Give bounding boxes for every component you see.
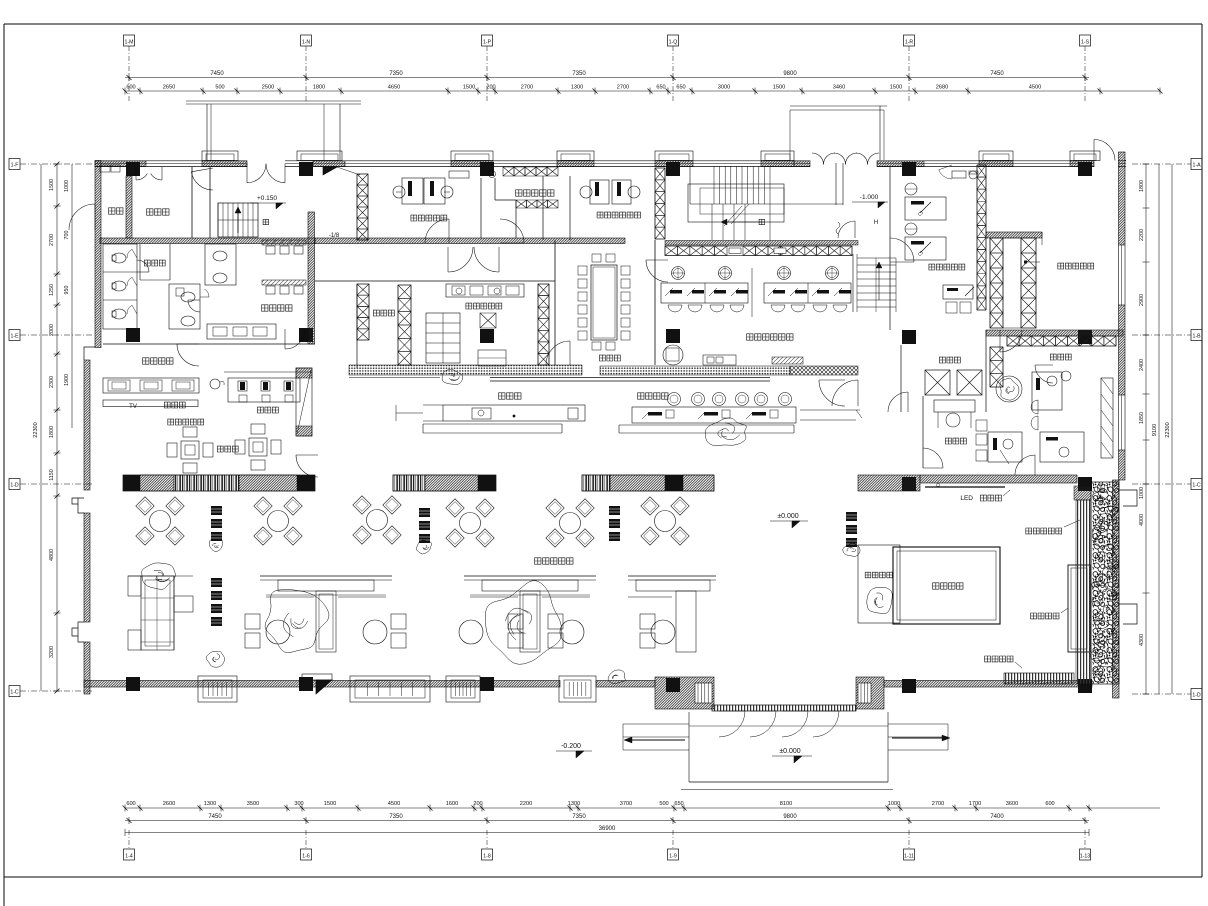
room label 资料室: [1050, 354, 1071, 360]
svg-text:2650: 2650: [163, 85, 175, 91]
wall shebei right: [191, 167, 193, 238]
book stack shelves row1: [211, 506, 222, 515]
svg-text:7450: 7450: [208, 814, 222, 820]
svg-text:1-C: 1-C: [1192, 483, 1201, 489]
room label 市场部办公室: [597, 212, 640, 218]
conference chairs: [578, 266, 587, 275]
label 上 main stair: [759, 219, 764, 224]
room label 市场部企划: [516, 190, 554, 196]
room label 区域沙盘 with leader: [1031, 613, 1059, 619]
svg-text:±0.000: ±0.000: [779, 748, 800, 755]
room label 电井: [109, 208, 123, 214]
data room small shelf: [990, 347, 1003, 387]
door conservatory: [1015, 455, 1035, 475]
craft tables: [181, 441, 199, 459]
room label 物料室: [373, 310, 394, 316]
copy room machines: [925, 370, 950, 395]
svg-text:2600: 2600: [163, 801, 175, 807]
cs office desks: [905, 197, 946, 220]
plant large center: [485, 581, 562, 665]
room label 客服办公室: [929, 264, 965, 270]
signing room desks group A: [661, 283, 748, 303]
svg-text:700: 700: [64, 231, 70, 240]
wall finance west: [922, 396, 924, 468]
svg-text:3000: 3000: [718, 85, 730, 91]
svg-text:1300: 1300: [568, 801, 580, 807]
svg-text:7350: 7350: [572, 814, 586, 820]
finance shelf right slanted: [1101, 378, 1113, 458]
staff lounge table: [478, 350, 506, 366]
svg-text:200: 200: [473, 801, 482, 807]
finance desk upper: [1032, 372, 1062, 410]
svg-text:±0.000: ±0.000: [777, 513, 798, 520]
region sand table: [1066, 563, 1090, 654]
svg-text:1900: 1900: [64, 374, 70, 386]
staff lounge lockers: [426, 313, 460, 363]
plants under stacks: [209, 539, 223, 552]
cs office door arc: [939, 170, 952, 179]
svg-text:2300: 2300: [49, 376, 55, 388]
svg-text:1-P: 1-P: [483, 40, 492, 46]
wall toilets right vertical: [308, 212, 315, 344]
sofa group T2: [464, 575, 596, 577]
svg-text:2400: 2400: [1139, 359, 1145, 371]
svg-text:600: 600: [1045, 801, 1054, 807]
wall female wc bottom: [103, 343, 315, 345]
room label 休息洽谈区: [535, 558, 573, 564]
columns grid black squares: [126, 162, 140, 176]
svg-text:4500: 4500: [1029, 85, 1041, 91]
grid axis markers left: [9, 159, 20, 170]
feature wall B3: [582, 475, 714, 491]
svg-text:4300: 4300: [1139, 634, 1145, 646]
window bays top: [202, 151, 238, 161]
svg-text:3460: 3460: [833, 85, 845, 91]
svg-text:500: 500: [659, 801, 668, 807]
grid axis markers right: [1191, 159, 1202, 170]
plant circle finance: [996, 376, 1022, 402]
room label 复印室: [939, 357, 960, 363]
porch steps west with arrow: [623, 723, 689, 725]
room label 男洗手间: [262, 305, 292, 311]
water bar lower counter: [423, 423, 562, 425]
corridor walls north center: [542, 176, 544, 240]
svg-text:4800: 4800: [49, 549, 55, 561]
reception counter: [632, 407, 796, 423]
svg-text:4500: 4500: [388, 801, 400, 807]
svg-text:1800: 1800: [313, 85, 325, 91]
svg-text:1850: 1850: [1139, 412, 1145, 424]
door cs office inner: [890, 238, 914, 262]
door children area: [296, 455, 318, 477]
wall bottom west band: [84, 681, 560, 688]
svg-text:1-4: 1-4: [125, 854, 133, 860]
svg-text:1-R: 1-R: [905, 40, 914, 46]
canopy north-east entrance: [790, 105, 887, 107]
svg-text:1-D: 1-D: [10, 483, 19, 489]
svg-text:200: 200: [486, 85, 495, 91]
door main stair corridor: [838, 221, 855, 238]
archive shelves: [990, 238, 1003, 328]
room label 员工休息室: [466, 303, 502, 309]
walkway dotted band: [349, 365, 582, 375]
svg-text:2500: 2500: [262, 85, 274, 91]
toilet stalls middle: [169, 284, 200, 329]
greenery conservatory strip: [1091, 482, 1119, 684]
door staff lounge: [546, 341, 570, 365]
finance meeting desk: [934, 400, 975, 412]
wall left jog steps: [84, 347, 95, 360]
signing room round table: [663, 345, 683, 365]
svg-text:2200: 2200: [520, 801, 532, 807]
svg-text:2700: 2700: [617, 85, 629, 91]
svg-text:2700: 2700: [49, 234, 55, 246]
toilet stalls east: [205, 244, 236, 285]
svg-text:2680: 2680: [936, 85, 948, 91]
plant reception: [705, 418, 746, 446]
window bays bottom: [198, 676, 237, 702]
walkway edge lines: [490, 377, 770, 379]
svg-text:2900: 2900: [1139, 294, 1145, 306]
marketing office desks: [590, 180, 609, 204]
room label 儿童活动室: [168, 419, 204, 425]
svg-text:1500: 1500: [49, 179, 55, 191]
equipment boxes dianjing: [100, 165, 110, 172]
staff lounge counter: [446, 284, 524, 297]
stair south corridor: [852, 254, 854, 312]
svg-text:1500: 1500: [773, 85, 785, 91]
customer service office walls: [889, 167, 891, 330]
door stall small: [137, 260, 149, 272]
sofa group T1: [260, 575, 392, 577]
door signing room: [832, 380, 858, 406]
wall right conservatory outer: [1113, 480, 1120, 698]
svg-text:1-M: 1-M: [125, 40, 134, 46]
svg-text:650: 650: [676, 85, 685, 91]
svg-text:22300: 22300: [1165, 422, 1171, 438]
water bar counter: [443, 405, 585, 421]
entrance doors north-east scalloped: [812, 153, 824, 165]
wall top hatch chips: [95, 161, 146, 167]
dimension chain bottom segments: [125, 807, 1160, 809]
svg-text:1-11: 1-11: [904, 854, 914, 860]
door archive: [1000, 330, 1022, 352]
cs office appliances: [952, 171, 966, 178]
wall archive bottom: [986, 330, 1123, 336]
svg-text:4650: 4650: [388, 85, 400, 91]
toilet block west stalls: [103, 244, 137, 329]
svg-text:LED: LED: [960, 495, 973, 502]
dimension chain top row overall: [125, 77, 1089, 79]
dimension chain bottom row2: [125, 820, 1089, 822]
room label 艺术装置: [865, 572, 892, 578]
data room shelf band: [1007, 336, 1116, 346]
door marketing office: [646, 260, 668, 282]
lounge diamond table clusters: [150, 511, 171, 532]
entrance door sill band: [712, 705, 856, 711]
sofa group west L-shape: [141, 576, 174, 650]
svg-text:600: 600: [126, 801, 135, 807]
porch south outline: [688, 712, 690, 782]
signing room top shelf band: [665, 241, 858, 246]
svg-text:2000: 2000: [49, 324, 55, 336]
svg-text:7350: 7350: [389, 814, 403, 820]
reception stools: [668, 393, 681, 406]
svg-text:TV: TV: [129, 404, 137, 410]
svg-text:1500: 1500: [463, 85, 475, 91]
room label 签约、洽谈室: [747, 334, 793, 340]
teapot symbol: [210, 379, 220, 389]
double door top-west: [247, 164, 266, 183]
entrance doors south: [719, 711, 745, 737]
wall marketing right crosshatch: [655, 168, 665, 239]
sink counter male: [207, 324, 276, 339]
door data room: [1035, 365, 1053, 383]
marketing planning shelf: [503, 167, 514, 176]
room label 项目沙盘: [933, 583, 963, 589]
svg-text:4000: 4000: [1139, 514, 1145, 526]
svg-text:1600: 1600: [446, 801, 458, 807]
svg-text:3200: 3200: [49, 646, 55, 658]
svg-text:H: H: [874, 220, 878, 226]
svg-text:600: 600: [126, 85, 135, 91]
dimension chain left: [40, 164, 42, 691]
plants at bottom wall: [608, 670, 625, 684]
room label 绘画墙: [164, 402, 185, 408]
door finance: [923, 448, 943, 468]
wall left band: [95, 161, 101, 348]
svg-text:3500: 3500: [247, 801, 259, 807]
reception counter outline lower: [619, 424, 794, 426]
svg-text:1-Q: 1-Q: [669, 40, 678, 46]
svg-text:1-E: 1-E: [10, 334, 19, 340]
door female wc: [177, 344, 199, 366]
door shebei: [191, 172, 213, 190]
svg-text:1150: 1150: [49, 469, 55, 481]
stall door arcs: [127, 249, 132, 258]
room label 保洁室: [144, 260, 165, 266]
svg-text:1700: 1700: [969, 801, 981, 807]
svg-text:650: 650: [656, 85, 665, 91]
urinals male wc: [262, 240, 306, 245]
finance desks lower: [988, 432, 1022, 462]
dimension chain bottom total 36900: [125, 832, 1089, 834]
svg-text:2700: 2700: [932, 801, 944, 807]
wall cs/copy divider: [900, 345, 902, 412]
porch steps east with arrow: [888, 723, 948, 725]
signing cabinets: [703, 355, 736, 365]
door top-right swing out: [1094, 140, 1115, 161]
door male wc: [285, 329, 305, 349]
room label 会议室: [599, 355, 620, 361]
svg-text:1-B: 1-B: [1192, 334, 1201, 340]
wall internet right diagonal: [296, 368, 312, 436]
room label 代理办公室: [411, 215, 447, 221]
svg-text:+0.150: +0.150: [257, 195, 277, 202]
svg-text:22300: 22300: [33, 422, 39, 438]
art installation box: [858, 545, 900, 623]
label 上 stairs: [263, 219, 268, 224]
agent office desks: [402, 178, 423, 204]
feature wall B4: [858, 475, 920, 491]
svg-text:1300: 1300: [204, 801, 216, 807]
conference table: [591, 265, 617, 340]
svg-text:1000: 1000: [64, 180, 70, 192]
svg-text:7400: 7400: [990, 814, 1004, 820]
entrance vestibule south piers: [655, 677, 714, 709]
svg-text:8100: 8100: [780, 801, 792, 807]
svg-text:9800: 9800: [783, 71, 797, 77]
svg-text:1-C: 1-C: [10, 690, 19, 696]
svg-text:1-6: 1-6: [302, 854, 310, 860]
walkway wall under offices: [315, 280, 555, 282]
svg-text:1250: 1250: [49, 284, 55, 296]
svg-text:1-S: 1-S: [1081, 40, 1090, 46]
dimension chain top row segments: [125, 90, 1160, 92]
vertical divider signing desks: [751, 268, 753, 317]
stair northwest: [218, 203, 258, 237]
wall marketing center: [480, 178, 482, 238]
stair wall right double: [835, 163, 837, 205]
wall bottom east band: [884, 681, 1092, 688]
door flag top wall near column P: [323, 167, 337, 175]
svg-text:1-D: 1-D: [1192, 693, 1201, 699]
grid axis markers top: [124, 35, 135, 46]
room label 女洗手间: [143, 358, 173, 364]
svg-text:9100: 9100: [1152, 424, 1158, 436]
room label 客服档案室: [1058, 263, 1094, 269]
label 置业展示 with leader: [985, 656, 1013, 662]
canopy north-west: [186, 100, 361, 102]
svg-text:36900: 36900: [599, 826, 616, 832]
svg-text:950: 950: [64, 286, 70, 295]
svg-text:1-N: 1-N: [302, 40, 311, 46]
svg-text:1-13: 1-13: [1080, 854, 1090, 860]
room label 手工区: [217, 446, 238, 452]
door bottom-west leaf triangle: [316, 680, 332, 694]
wall interior horizontal toilets top: [100, 238, 315, 244]
internet zone desk: [224, 371, 312, 373]
door left wall: [69, 204, 95, 230]
inner deck band conservatory: [1076, 500, 1091, 684]
svg-text:2200: 2200: [1139, 229, 1145, 241]
svg-text:7450: 7450: [990, 71, 1004, 77]
svg-text:3700: 3700: [620, 801, 632, 807]
door lounge to hall: [819, 380, 845, 406]
svg-text:1300: 1300: [571, 85, 583, 91]
svg-text:1800: 1800: [49, 426, 55, 438]
room label 财务室: [945, 438, 966, 444]
svg-text:9800: 9800: [783, 814, 797, 820]
svg-text:7450: 7450: [210, 71, 224, 77]
archive room walls: [986, 232, 1042, 238]
page frame border: [4, 23, 1202, 25]
sales wall LED section: [920, 475, 1077, 483]
main stair north: [713, 166, 715, 204]
svg-text:1500: 1500: [890, 85, 902, 91]
svg-text:500: 500: [215, 85, 224, 91]
wall divider dianjing: [126, 176, 132, 238]
plant walkway: [442, 369, 463, 384]
door copy room: [888, 392, 908, 412]
right wall jog steps: [1119, 490, 1137, 506]
svg-text:-0.200: -0.200: [561, 743, 581, 750]
project sand table: [893, 547, 1000, 624]
staff lounge column xbox: [480, 313, 496, 328]
door double agent office: [425, 219, 449, 243]
grid axis markers bottom: [124, 849, 135, 860]
display comb shelf: [1004, 673, 1074, 684]
svg-text:2700: 2700: [521, 85, 533, 91]
svg-text:1-F: 1-F: [11, 163, 19, 169]
wall agent office left: [357, 174, 368, 240]
svg-text:-1/8: -1/8: [329, 233, 340, 239]
door corridor center double: [448, 247, 473, 272]
room label 销售精制区: [1026, 528, 1062, 534]
book stack shelves row2: [211, 578, 222, 587]
svg-text:1-8: 1-8: [483, 854, 491, 860]
svg-text:-1.000: -1.000: [860, 194, 879, 201]
conference room walls: [554, 240, 556, 365]
svg-text:1000: 1000: [1139, 487, 1145, 499]
svg-text:1-A: 1-A: [1192, 163, 1201, 169]
room label 接待前台: [638, 393, 668, 399]
wall right band upper: [1119, 152, 1126, 245]
room storage 物料室 shelves: [357, 284, 369, 340]
wall top window lines: [95, 160, 1126, 162]
dimension chain right: [1145, 164, 1147, 694]
sofa group T3: [628, 575, 716, 577]
sink counter female: [103, 378, 199, 393]
counter painting wall: [103, 400, 198, 407]
walkway diamond band: [790, 366, 858, 375]
svg-text:1-9: 1-9: [669, 854, 677, 860]
cs lower table: [943, 285, 973, 299]
room label 水吧区: [499, 393, 521, 399]
svg-text:1500: 1500: [324, 801, 336, 807]
svg-text:1800: 1800: [1139, 180, 1145, 192]
room label 上网区: [257, 407, 278, 413]
svg-text:7350: 7350: [389, 71, 403, 77]
wall top door openings white: [247, 160, 285, 168]
room label 设备室: [147, 209, 169, 215]
door dianjing double: [136, 174, 147, 181]
svg-text:3600: 3600: [1006, 801, 1018, 807]
feature wall B2: [393, 475, 496, 491]
feature wall B1: [123, 475, 315, 491]
wall staff lounge right crosshatch: [538, 284, 549, 365]
svg-text:7350: 7350: [572, 71, 586, 77]
